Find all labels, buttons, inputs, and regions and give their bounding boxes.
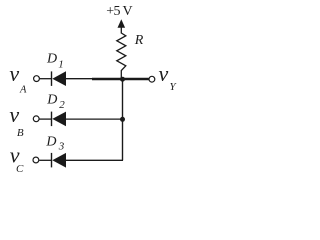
- svg-text:D: D: [46, 93, 57, 108]
- svg-text:1: 1: [58, 59, 64, 71]
- svg-text:R: R: [134, 33, 144, 48]
- svg-text:2: 2: [59, 99, 65, 111]
- svg-text:A: A: [19, 85, 27, 96]
- svg-text:v: v: [9, 61, 19, 86]
- svg-text:+5: +5: [106, 4, 120, 19]
- svg-text:B: B: [17, 127, 24, 139]
- svg-text:V: V: [123, 4, 133, 19]
- svg-text:3: 3: [58, 141, 65, 153]
- svg-text:v: v: [159, 61, 169, 86]
- svg-text:v: v: [9, 102, 19, 127]
- svg-text:D: D: [46, 51, 57, 66]
- svg-text:D: D: [45, 134, 56, 149]
- svg-text:C: C: [16, 163, 24, 175]
